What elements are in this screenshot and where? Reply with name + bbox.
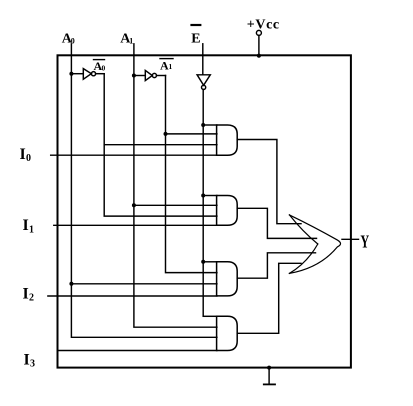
label I2 xyxy=(23,286,35,304)
label A1 xyxy=(120,32,133,47)
wire I3 xyxy=(58,350,217,352)
OR gate U5 xyxy=(289,215,340,274)
node A0 gate3 tap xyxy=(69,282,73,286)
wire E to gate4 xyxy=(203,315,217,317)
node E gate2 tap xyxy=(201,194,205,198)
Vcc terminal circle xyxy=(256,30,261,35)
wire E to gate2 xyxy=(203,195,217,197)
node A1bar gate1 tap xyxy=(164,132,168,136)
node E gate1 tap xyxy=(201,123,205,127)
inverter U3 (Ebar) pointing down xyxy=(197,75,210,316)
wire A0bar to gate1 xyxy=(104,144,217,146)
chip outline box xyxy=(58,55,351,367)
svg-text:I: I xyxy=(20,146,26,163)
inverter U2 (A1) xyxy=(134,70,166,80)
node A0 inverter tap xyxy=(69,72,73,76)
wire gate4 output xyxy=(237,263,301,333)
svg-text:2: 2 xyxy=(29,293,34,304)
svg-text:I: I xyxy=(23,217,29,234)
wire Vcc to box xyxy=(258,35,260,55)
AND gate G4 xyxy=(217,316,238,350)
svg-text:I: I xyxy=(24,352,30,369)
label I0 xyxy=(20,146,32,164)
svg-text:E: E xyxy=(191,32,200,47)
wire E to gate3 xyxy=(203,261,217,263)
label A0 xyxy=(62,32,75,47)
AND gate G1 xyxy=(217,125,238,155)
label I1 xyxy=(23,217,35,236)
svg-text:1: 1 xyxy=(169,62,173,71)
AND gate G3 xyxy=(217,262,238,296)
wire I2 xyxy=(48,295,217,297)
node E gate3 tap xyxy=(201,260,205,264)
wire gate3 output xyxy=(237,253,315,278)
wire gate2 output xyxy=(237,208,316,238)
wire E to gate1 xyxy=(203,124,217,126)
wire A1bar to gate1 xyxy=(166,133,217,135)
AND gate G2 xyxy=(217,196,238,226)
wire I0 xyxy=(51,154,217,156)
svg-text:3: 3 xyxy=(30,359,35,370)
wire A1 vertical xyxy=(134,44,217,327)
wire A1bar vertical xyxy=(166,76,217,273)
wire A1 to gate2 xyxy=(134,204,217,206)
svg-text:Y: Y xyxy=(360,232,369,252)
wire Y output xyxy=(342,238,359,240)
node Vcc junction xyxy=(257,54,261,58)
svg-text:0: 0 xyxy=(102,63,106,72)
label A0bar xyxy=(94,59,106,73)
Ebar overline xyxy=(192,24,201,26)
svg-text:+Vcc: +Vcc xyxy=(247,18,280,33)
wire I1 xyxy=(54,224,217,226)
wire A0 vertical xyxy=(71,44,217,338)
wire A0bar vertical xyxy=(104,74,217,216)
svg-text:1: 1 xyxy=(29,225,34,236)
inverter U1 (A0) xyxy=(71,69,104,80)
svg-text:0: 0 xyxy=(26,153,31,164)
label Ebar xyxy=(191,32,200,47)
label A1bar xyxy=(160,58,173,72)
wire A0 to gate3 xyxy=(71,283,217,285)
label I3 xyxy=(24,352,36,370)
label +Vcc xyxy=(247,18,280,33)
label Y xyxy=(360,232,369,252)
svg-text:1: 1 xyxy=(129,37,133,46)
wire Ebar down to inverter xyxy=(202,44,204,75)
ground xyxy=(264,366,275,385)
svg-text:I: I xyxy=(23,286,29,303)
wire gate1 output xyxy=(237,140,301,224)
node A1 inverter tap xyxy=(132,74,136,78)
node A1 gate2 tap xyxy=(132,203,136,207)
